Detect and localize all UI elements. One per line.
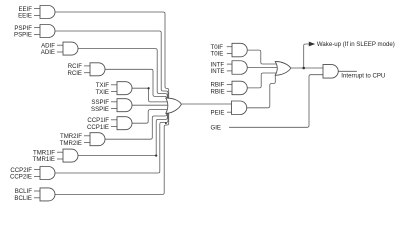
svg-text:Wake-up (If in SLEEP mode): Wake-up (If in SLEEP mode)	[317, 41, 395, 48]
svg-text:RBIE: RBIE	[211, 89, 225, 96]
svg-text:TMR2IE: TMR2IE	[60, 140, 82, 147]
svg-text:INTE: INTE	[211, 68, 225, 75]
svg-text:BCLIE: BCLIE	[14, 195, 32, 202]
svg-text:TXIE: TXIE	[95, 89, 109, 96]
svg-text:Interrupt to CPU: Interrupt to CPU	[341, 72, 385, 79]
svg-text:PSPIE: PSPIE	[14, 32, 32, 39]
svg-text:PEIE: PEIE	[211, 110, 225, 117]
svg-text:T0IE: T0IE	[211, 51, 224, 58]
svg-text:GIE: GIE	[211, 124, 222, 131]
svg-text:ADIE: ADIE	[41, 49, 55, 56]
svg-text:EEIE: EEIE	[18, 13, 32, 20]
svg-text:SSPIE: SSPIE	[91, 106, 109, 113]
svg-text:CCP1IE: CCP1IE	[87, 124, 109, 131]
svg-text:RCIE: RCIE	[67, 70, 82, 77]
svg-text:TMR1IE: TMR1IE	[33, 156, 55, 163]
svg-text:CCP2IE: CCP2IE	[10, 174, 32, 181]
